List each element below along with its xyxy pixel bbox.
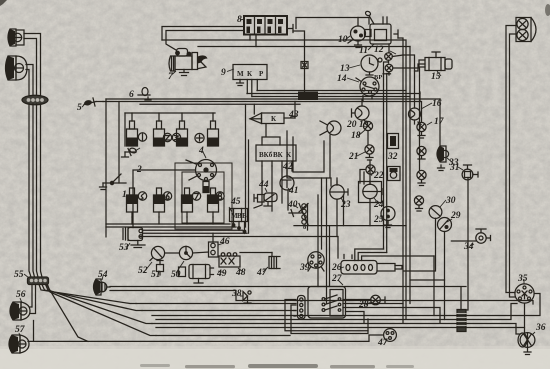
connector lower (28, 277, 49, 285)
wire from terminal 5 (103, 102, 422, 123)
trailer socket 35 (515, 284, 534, 303)
socket 40 (289, 204, 308, 231)
svg-text:13: 13 (340, 64, 350, 74)
svg-text:6: 6 (129, 90, 134, 100)
wire tail lamp verticals (506, 26, 516, 293)
relay block below 32 (388, 167, 401, 181)
tail lamp top right (516, 18, 536, 42)
svg-text:52: 52 (138, 266, 148, 276)
svg-text:40: 40 (287, 200, 298, 210)
condenser (203, 182, 209, 193)
svg-text:16: 16 (432, 99, 442, 109)
wire 52-50-46 row (165, 252, 209, 253)
svg-text:11: 11 (359, 46, 368, 56)
wire headlamp upper to grommet (24, 34, 41, 97)
svg-text:50: 50 (171, 270, 181, 280)
wire headlamp lower to grommet (26, 65, 33, 97)
wire fan from connector (39, 285, 136, 304)
wire bottom long runs (110, 287, 466, 310)
svg-text:8: 8 (237, 15, 242, 25)
switch 27 (298, 287, 346, 320)
wire block8 right down (293, 31, 305, 92)
tail lamp 36 (518, 333, 535, 355)
footswitch 45 (230, 209, 248, 234)
svg-text:18: 18 (351, 131, 361, 141)
marker 5 (138, 192, 146, 200)
lamp 16 (409, 108, 422, 125)
gauge 30 (429, 206, 442, 219)
svg-text:22: 22 (373, 171, 384, 181)
spark plug row1 no.1 (127, 121, 138, 146)
starter motor 7 (169, 49, 208, 76)
wire 15 left elbow (415, 64, 426, 71)
terminal 6 (138, 88, 151, 101)
gauge 23 (330, 181, 348, 199)
fuse 44 (254, 193, 277, 206)
wire 29/30 drops (433, 256, 435, 316)
fuse 12a (385, 53, 393, 63)
ignition switch 14 (356, 77, 379, 102)
svg-text:39: 39 (299, 263, 310, 273)
marker plus (195, 133, 204, 142)
sensor 31 (462, 165, 478, 180)
svg-text:1: 1 (122, 190, 127, 200)
connector 32 (388, 134, 399, 149)
svg-text:Р: Р (259, 70, 264, 78)
flasher 76 (341, 255, 402, 275)
sleeve junction (298, 92, 318, 101)
headlamp 55 upper (8, 29, 24, 46)
marker 7 (192, 192, 200, 200)
lamp 17 (417, 122, 426, 138)
svg-text:ВКб: ВКб (259, 151, 273, 159)
wire distributor to coil (133, 170, 196, 228)
wire 43 to 42 (262, 125, 280, 146)
breaker 46 (209, 242, 219, 257)
lamp 57 (9, 335, 29, 353)
resistor 47 (269, 253, 280, 269)
svg-text:30: 30 (445, 196, 456, 206)
sensor 29 (438, 218, 452, 232)
svg-text:32: 32 (387, 152, 398, 162)
marker 2 (163, 133, 171, 141)
wire upper-left bundle horizontals (106, 226, 236, 228)
wire bundle left vertical (29, 104, 31, 277)
wire 11 right down (398, 38, 403, 323)
svg-text:42: 42 (282, 162, 293, 172)
svg-text:51: 51 (151, 270, 161, 280)
spark plug row1 no.3 (177, 121, 188, 146)
wire drop to gauges (331, 178, 337, 186)
clock 13 (361, 55, 382, 75)
marker 3 (172, 133, 180, 141)
wire fuse 12a right (389, 44, 403, 57)
svg-text:49: 49 (216, 269, 227, 279)
wire 43 feed (253, 104, 255, 114)
lamp 18 (363, 121, 372, 144)
svg-text:ВК: ВК (273, 151, 284, 159)
svg-text:33: 33 (448, 158, 459, 168)
marker 8 (216, 192, 224, 200)
wire right column vertical (419, 92, 421, 102)
lamp 28 (371, 295, 385, 305)
svg-text:20 19: 20 19 (346, 120, 369, 130)
svg-text:23: 23 (340, 200, 351, 210)
wire lamp 56 to 57 (33, 321, 35, 342)
svg-text:24: 24 (373, 200, 384, 210)
svg-text:43: 43 (288, 110, 299, 120)
svg-text:21: 21 (348, 152, 359, 162)
svg-text:35: 35 (517, 274, 528, 284)
spark plug row2 no.8 (208, 188, 219, 217)
lamp 56 (10, 302, 30, 320)
svg-text:ВР: ВР (374, 74, 382, 81)
wire lamp 56 feed (30, 285, 32, 308)
svg-text:17: 17 (434, 117, 445, 127)
wire starter long runs right (162, 40, 406, 47)
switch box 42 (256, 145, 296, 166)
relay 48 (219, 253, 240, 267)
terminal 5 (83, 98, 103, 106)
wire ignition bus row2 (132, 217, 213, 224)
wire block8 to starter (162, 27, 244, 41)
marker 6 (163, 192, 171, 200)
svg-text:45: 45 (230, 197, 241, 207)
wire loops around 27 (285, 300, 368, 331)
switch 2 (100, 174, 127, 190)
svg-text:3: 3 (132, 139, 138, 149)
fuse 12b (385, 64, 393, 75)
svg-text:44: 44 (258, 180, 269, 190)
motor 49 (179, 265, 214, 284)
sensor 25 (381, 207, 395, 228)
svg-text:12: 12 (374, 45, 384, 55)
svg-text:34: 34 (463, 242, 474, 252)
svg-text:М: М (237, 70, 244, 78)
lamp 20 (320, 121, 341, 135)
lamp 22 (360, 165, 375, 183)
wire fuse drops (384, 60, 389, 249)
wire flasher feeds (355, 249, 384, 261)
label leaders (241, 19, 244, 21)
lamp 21 (365, 145, 374, 160)
valve 34 (476, 229, 491, 243)
lamp right y200 (414, 196, 423, 211)
svg-text:10: 10 (338, 35, 348, 45)
svg-text:54: 54 (98, 270, 108, 280)
spark plug row2 no.7 (182, 188, 193, 217)
voltage regulator 9 (233, 65, 267, 97)
terminal 3 (122, 147, 137, 157)
svg-text:57: 57 (15, 325, 26, 335)
lamp 54 (94, 279, 111, 295)
svg-text:38: 38 (231, 289, 242, 299)
gauge 24 (359, 181, 383, 203)
relay 43 (250, 113, 295, 124)
wire loop center outer (287, 131, 330, 178)
svg-text:56: 56 (16, 290, 26, 300)
wire vertical pair center (405, 47, 407, 319)
svg-text:53: 53 (119, 243, 129, 253)
svg-text:5: 5 (77, 103, 82, 113)
connector 37 (457, 310, 466, 332)
connector 39 (308, 252, 324, 271)
wire HT loop outer (175, 163, 232, 229)
wire ignition bus row1 (125, 112, 215, 114)
svg-text:9: 9 (221, 68, 226, 78)
svg-text:14: 14 (337, 74, 347, 84)
svg-text:36: 36 (535, 323, 546, 333)
connector 47b (384, 329, 397, 342)
wire HT loop inner (182, 172, 224, 223)
svg-text:46: 46 (219, 237, 230, 247)
relay 11 (365, 17, 399, 44)
wire loop center inner (293, 137, 324, 172)
switch 52 (150, 246, 165, 260)
lamp unlabeled right (417, 146, 426, 159)
svg-text:В: В (242, 212, 247, 220)
clip 38 (243, 291, 251, 303)
spark plug row2 no.6 (154, 188, 165, 217)
wire lamp 57 feed (28, 335, 383, 341)
headlamp 55 lower (6, 56, 28, 80)
marker 1 (138, 133, 146, 141)
gauge 41 (280, 161, 294, 210)
distributor 4 (186, 160, 217, 181)
svg-text:4: 4 (198, 146, 204, 156)
bottom smudge (140, 364, 414, 368)
svg-text:55: 55 (14, 270, 24, 280)
button 51 (157, 261, 164, 276)
wire block8 to bus ticks (250, 35, 256, 47)
wire 11 bracket (369, 16, 374, 25)
switch 15 (419, 52, 452, 71)
wire mid horizontal bundle (257, 90, 406, 92)
corner mark (0, 0, 550, 16)
lamp right lower (417, 170, 426, 185)
spark plug row2 no.5 (127, 188, 138, 217)
spark plug row1 no.4 (208, 121, 219, 146)
ignition coil 53 (123, 228, 145, 248)
wire fuse 12b right (393, 68, 420, 170)
grommet connector upper (22, 95, 48, 105)
svg-text:2: 2 (136, 165, 142, 175)
spark plug row1 no.2 (154, 121, 165, 146)
switch 50 (179, 246, 192, 259)
wire top loop over 10/11 (296, 18, 369, 29)
lamp 33 (437, 146, 449, 171)
horn 10 (348, 26, 366, 48)
wire bundle drop left of 43 (245, 104, 247, 227)
fuse block 8 (244, 16, 293, 35)
lamp 19 (352, 99, 370, 123)
svg-text:28: 28 (358, 300, 369, 310)
